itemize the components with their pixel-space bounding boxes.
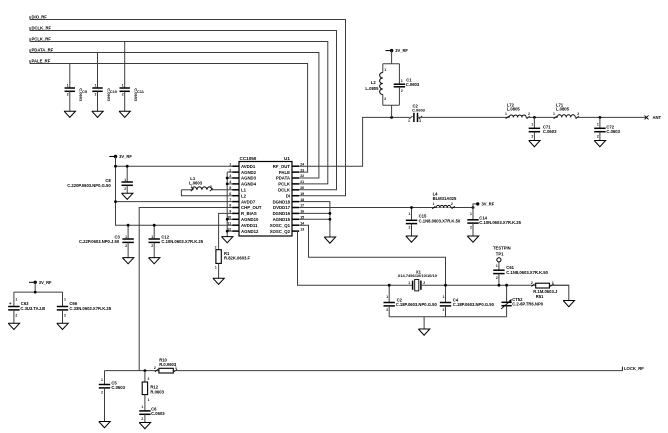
capacitor C4: [440, 302, 451, 304]
port ANT: [645, 115, 649, 119]
capacitor C71: [529, 127, 540, 129]
svg-text:23: 23: [300, 168, 304, 172]
ground under C8: [122, 193, 133, 199]
svg-text:AVDD7: AVDD7: [241, 199, 256, 204]
wire lock line to port: [173, 370, 622, 372]
svg-text:1: 1: [124, 178, 126, 182]
U1 pin 21 stub (PCLK): [292, 183, 299, 185]
svg-text:2: 2: [470, 225, 472, 229]
port label PDATA_RF: [29, 49, 31, 52]
svg-text:XOSC_Q1: XOSC_Q1: [270, 223, 291, 228]
svg-text:PDATA_RF: PDATA_RF: [32, 47, 54, 52]
net PALE_RF: bus wire from port to U1 pin 23: [30, 64, 308, 173]
capacitor C2 (crystal left): [384, 302, 395, 304]
capacitor C14: [467, 219, 478, 221]
svg-text:RF_OUT: RF_OUT: [273, 164, 291, 169]
svg-text:ANT: ANT: [653, 115, 662, 120]
svg-text:1: 1: [409, 212, 411, 216]
svg-text:2: 2: [419, 119, 421, 123]
resistor R1: [216, 250, 221, 264]
wire: [13, 310, 15, 323]
svg-text:R_BIAS: R_BIAS: [241, 211, 257, 216]
wire to capacitor C2 (crystal left): [388, 285, 390, 302]
svg-text:1: 1: [122, 84, 124, 88]
U1 pin 8 stub (CHP_OUT): [232, 207, 239, 209]
svg-text:CC1050: CC1050: [240, 156, 257, 161]
svg-text:AGND15: AGND15: [273, 217, 291, 222]
wire vertical power rail to AVDD11 (pin 11): [116, 166, 233, 225]
svg-text:1: 1: [433, 202, 435, 206]
U1 pin 2 stub (AGND2): [232, 171, 239, 173]
svg-text:DI: DI: [286, 193, 290, 198]
svg-text:DIO_RF: DIO_RF: [32, 14, 48, 19]
ground under C71: [529, 141, 540, 147]
capacitor C3: [122, 238, 133, 240]
wire to capacitor C12: [153, 225, 155, 239]
IC U1 CC1050 body: [239, 162, 292, 237]
node junction DVDD/3V_RF: [472, 206, 475, 209]
svg-text:C.3U3.TAJ.B: C.3U3.TAJ.B: [20, 306, 45, 311]
wire: [472, 223, 474, 236]
svg-text:2: 2: [531, 134, 533, 138]
svg-text:1: 1: [443, 295, 445, 299]
U1 pin 4 stub (AGND4): [232, 183, 239, 185]
wire to capacitor C63: [13, 292, 15, 306]
U1 pin 5 stub (L1): [232, 189, 239, 191]
U1 pin 19 stub (DI): [292, 195, 299, 197]
wire: [69, 91, 71, 111]
svg-text:1: 1: [597, 122, 599, 126]
capacitor C15: [406, 219, 417, 221]
svg-text:1: 1: [531, 122, 533, 126]
inductor L71: [554, 116, 557, 119]
capacitor C1 (tank): [398, 64, 400, 84]
resistor R10 (0 ohm) in lock line: [155, 369, 158, 372]
svg-text:L.0805: L.0805: [507, 106, 521, 111]
svg-text:2: 2: [148, 377, 150, 381]
wire: [144, 414, 146, 422]
wire: [506, 306, 508, 317]
svg-text:C.2-6P.TR6.NP0: C.2-6P.TR6.NP0: [512, 301, 544, 306]
svg-text:1: 1: [101, 378, 103, 382]
U1 pin 6 stub (L2): [232, 195, 239, 197]
node junction at AVDD1: [114, 165, 117, 168]
svg-text:2: 2: [151, 244, 153, 248]
wire CHP_OUT (pin 8) down to lock filter: [139, 208, 232, 371]
svg-text:22: 22: [300, 174, 304, 178]
svg-text:DVDD17: DVDD17: [273, 205, 291, 210]
svg-text:2: 2: [423, 281, 425, 285]
svg-text:1: 1: [408, 119, 410, 123]
svg-text:1: 1: [148, 398, 150, 402]
power symbol 3V_RF (DVDD): [473, 204, 476, 208]
wire to antenna: [575, 116, 646, 118]
svg-text:2: 2: [141, 417, 143, 421]
svg-text:DCLK: DCLK: [278, 188, 291, 193]
wire AGND stub pin 3: [227, 177, 232, 179]
svg-text:2: 2: [597, 134, 599, 138]
svg-text:AGND12: AGND12: [241, 229, 259, 234]
capacitor C10: [92, 87, 102, 89]
wire to capacitor C5: [104, 371, 106, 385]
U1 pin 17 stub (DVDD17): [292, 207, 299, 209]
svg-text:CHP_OUT: CHP_OUT: [241, 205, 262, 210]
svg-text:2: 2: [451, 202, 453, 206]
U1 pin 3 stub (AGND3): [232, 177, 239, 179]
capacitor C8: [122, 181, 133, 183]
wire DGND16 (pin 16): [299, 212, 330, 214]
svg-text:3V_RF: 3V_RF: [395, 48, 408, 53]
ground AGND bus: [222, 237, 233, 243]
wire: [126, 185, 128, 193]
power symbol 3V_RF (tank): [385, 50, 390, 52]
capacitor C66: [57, 306, 68, 308]
wire: [97, 91, 99, 111]
wire TP1 to C61: [498, 262, 500, 270]
ground under C15: [406, 236, 417, 242]
svg-text:19: 19: [300, 192, 304, 196]
wire: [526, 116, 557, 118]
svg-text:1: 1: [384, 68, 386, 72]
wire AGND stub pin 4: [227, 183, 232, 185]
net PDATA_RF: bus wire from port to U1 pin 22: [30, 53, 319, 179]
capacitor C2 series (RF coupling): [409, 116, 412, 119]
U1 pin 7 stub (AVDD7): [232, 201, 239, 203]
crystal X1: [412, 281, 414, 290]
wire DVDD17 (pin 17) supply line: [299, 207, 473, 209]
wire AGND stub pin 12: [227, 230, 232, 232]
U1 pin 16 stub (DGND16): [292, 212, 299, 214]
wire: [445, 306, 447, 317]
svg-text:1: 1: [64, 298, 66, 302]
svg-text:AGND4: AGND4: [241, 182, 257, 187]
ground under C3: [122, 258, 133, 264]
svg-text:3V_RF: 3V_RF: [482, 202, 495, 207]
wire to capacitor C14: [472, 208, 474, 220]
net PCLK_RF: bus wire from port to U1 pin 21: [30, 42, 328, 184]
wire: [127, 242, 129, 257]
svg-text:BLM31A025: BLM31A025: [433, 196, 457, 201]
wire XOSC_Q1 (pin 14) to crystal right node: [299, 225, 445, 285]
svg-text:1: 1: [95, 84, 97, 88]
wire to capacitor C15: [411, 208, 413, 221]
svg-text:2: 2: [409, 226, 411, 230]
svg-text:2: 2: [384, 97, 386, 101]
capacitor C63 (tantalum): [8, 306, 19, 308]
wire crystal node to C61/trimmer/R51: [446, 284, 569, 286]
capacitor C72: [594, 127, 605, 129]
svg-text:21: 21: [300, 180, 304, 184]
svg-text:3V_RF: 3V_RF: [39, 280, 52, 285]
svg-text:1: 1: [67, 84, 69, 88]
port label PCLK_RF: [29, 38, 31, 41]
node junctions on DGND bus: [329, 212, 332, 215]
svg-text:L1: L1: [241, 188, 247, 193]
svg-text:2: 2: [528, 112, 530, 116]
svg-text:AGND10: AGND10: [241, 217, 259, 222]
wire R51 to ground: [549, 285, 568, 300]
capacitor C6: [139, 410, 150, 412]
svg-text:L.0805: L.0805: [556, 106, 570, 111]
svg-text:TP1: TP1: [496, 251, 504, 256]
node junction C71: [533, 116, 536, 119]
wire: [498, 274, 500, 286]
svg-text:+: +: [9, 301, 12, 306]
svg-text:X14.7456/10/10/10/10: X14.7456/10/10/10/10: [398, 273, 438, 278]
svg-text:C.10N.0603.X7R.K.25: C.10N.0603.X7R.K.25: [479, 220, 521, 225]
svg-text:1: 1: [141, 405, 143, 409]
svg-text:2: 2: [210, 185, 212, 189]
ground under C63: [8, 323, 19, 329]
U1 pin 23 stub (PALE): [292, 171, 299, 173]
svg-text:C.18P.0603.NP0.G.50: C.18P.0603.NP0.G.50: [453, 302, 495, 307]
svg-text:1: 1: [386, 295, 388, 299]
ground under C72: [594, 141, 605, 147]
svg-text:1: 1: [215, 265, 217, 269]
svg-text:L.0805: L.0805: [365, 86, 379, 91]
U1 pin 24 stub (RF_OUT): [292, 165, 299, 167]
ground right of U1: [324, 237, 335, 243]
svg-text:R.0.0603: R.0.0603: [159, 362, 177, 367]
svg-text:1: 1: [15, 298, 17, 302]
U1 pin 12 stub (AGND12): [232, 230, 239, 232]
capacitor C9: [65, 87, 75, 89]
wire: [124, 91, 126, 111]
svg-text:L.0603: L.0603: [189, 180, 203, 185]
svg-text:C10: C10: [110, 89, 118, 94]
wire crystal bottom rail: [389, 316, 506, 318]
port label PALE_RF: [29, 60, 31, 63]
svg-text:DCLK_RF: DCLK_RF: [32, 25, 52, 30]
wire: [218, 263, 220, 278]
svg-text:2: 2: [67, 93, 69, 97]
wire from bus down to capacitor C10: [97, 53, 99, 88]
ground under C66: [57, 323, 68, 329]
svg-text:2: 2: [101, 390, 103, 394]
ground right of R51: [563, 301, 574, 307]
svg-text:2: 2: [154, 366, 156, 370]
svg-text:R51: R51: [536, 294, 544, 299]
U1 pin 15 stub (AGND15): [292, 218, 299, 220]
node junction C72: [599, 116, 602, 119]
svg-text:1: 1: [191, 185, 193, 189]
svg-text:1: 1: [470, 212, 472, 216]
wire to capacitor C4 (crystal right): [445, 285, 447, 302]
wire tank tap: [391, 105, 393, 117]
svg-text:C11: C11: [137, 89, 145, 94]
svg-text:C.0603: C.0603: [151, 411, 165, 416]
svg-text:2: 2: [64, 314, 66, 318]
ground under C12: [149, 258, 160, 264]
inductor L4 (ferrite bead): [436, 205, 451, 208]
wire to ground: [423, 317, 425, 329]
resistor R12: [142, 382, 147, 395]
capacitor C11: [120, 87, 130, 89]
wire power island rail: [34, 282, 36, 292]
svg-text:PCLK_RF: PCLK_RF: [32, 36, 52, 41]
svg-text:PCLK: PCLK: [278, 182, 291, 187]
svg-text:DGND18: DGND18: [273, 199, 291, 204]
svg-text:1: 1: [496, 264, 498, 268]
wire to resistor R12: [144, 371, 146, 382]
wire to trimmer CT52: [506, 285, 508, 302]
wire: [599, 132, 601, 141]
svg-text:2: 2: [125, 244, 127, 248]
capacitor C5: [99, 384, 110, 386]
svg-text:C.0603: C.0603: [406, 82, 420, 87]
port label DCLK_RF: [29, 27, 31, 30]
wire to capacitor C71: [533, 117, 535, 128]
wire AGND stub pin 10: [227, 218, 232, 220]
capacitor C61: [493, 269, 504, 271]
svg-text:2: 2: [122, 93, 124, 97]
svg-text:AGND2: AGND2: [241, 170, 257, 175]
wire power to tank: [391, 51, 393, 64]
inductor L1 between pins 5 and 6: [212, 189, 232, 191]
svg-text:C.1N8.0603.X7R.K.50: C.1N8.0603.X7R.K.50: [419, 219, 461, 224]
wire AGND15 (pin 15): [299, 218, 330, 220]
wire to capacitor C66: [62, 292, 64, 306]
svg-text:U1: U1: [284, 156, 290, 161]
U1 pin 10 stub (AGND10): [232, 218, 239, 220]
wire to capacitor C3: [127, 225, 129, 239]
wire R_BIAS pin 9 to R1: [219, 213, 233, 249]
svg-text:R.82K.0603.F: R.82K.0603.F: [224, 256, 251, 261]
svg-text:2: 2: [386, 308, 388, 312]
ground under R1: [213, 278, 224, 284]
ground under C10: [92, 111, 103, 117]
svg-text:C.220P.0603.NP0.G.50: C.220P.0603.NP0.G.50: [67, 183, 111, 188]
svg-text:2: 2: [215, 245, 217, 249]
ground under crystal network: [418, 329, 429, 335]
wire AVDD7 (pin 7): [116, 201, 233, 203]
svg-text:2: 2: [496, 276, 498, 280]
svg-text:XOSC_Q2: XOSC_Q2: [270, 229, 291, 234]
svg-text:LOCK_RF: LOCK_RF: [624, 366, 644, 371]
port label LOCK_RF: [621, 367, 623, 371]
svg-text:C.0603: C.0603: [412, 107, 426, 112]
svg-text:2: 2: [95, 93, 97, 97]
svg-text:13: 13: [300, 227, 304, 231]
resistor R51: [531, 284, 534, 287]
svg-text:AVDD11: AVDD11: [241, 223, 258, 228]
svg-text:3V_RF: 3V_RF: [119, 154, 132, 159]
svg-text:C.22P.0603.NP0.J.50: C.22P.0603.NP0.J.50: [79, 239, 120, 244]
port label DIO_RF: [29, 16, 31, 19]
U1 pin 22 stub (PDATA): [292, 177, 299, 179]
ground under C6: [139, 423, 150, 429]
ground under C5: [99, 422, 110, 428]
LC tank: inductor L2 parallel capacitor C1: [383, 63, 400, 65]
wire DGND18 (pin 18) to ground bus: [299, 202, 330, 237]
capacitor C12: [149, 238, 160, 240]
svg-text:PDATA: PDATA: [276, 176, 290, 181]
wire: [104, 388, 106, 422]
wire: [62, 310, 64, 323]
wire to capacitor C72: [599, 117, 601, 128]
node junction R12: [144, 369, 147, 372]
svg-text:1: 1: [553, 112, 555, 116]
wire: [153, 242, 155, 257]
svg-text:C.1N8.0603.X7R.K.50: C.1N8.0603.X7R.K.50: [506, 270, 548, 275]
svg-text:C.0603: C.0603: [111, 385, 125, 390]
svg-text:C.18P.0603.NP0.G.50: C.18P.0603.NP0.G.50: [396, 302, 438, 307]
net DCLK_RF: bus wire from port to U1 pin 20: [30, 31, 337, 190]
svg-text:20: 20: [300, 186, 304, 190]
svg-text:2: 2: [531, 281, 533, 285]
inductor L72: [506, 116, 509, 119]
wire lock rail: [105, 370, 159, 372]
U1 pin 13 stub (XOSC_Q2): [292, 230, 299, 232]
svg-text:TESTPIN: TESTPIN: [493, 245, 511, 250]
U1 pin 20 stub (DCLK): [292, 189, 299, 191]
U1 pin 14 stub (XOSC_Q1): [292, 224, 299, 226]
U1 pin 9 stub (R_BIAS): [232, 212, 239, 214]
trimmer capacitor CT52: [502, 301, 512, 303]
net DIO_RF: bus wire from port to U1 pin 19: [30, 20, 346, 196]
ground under C14: [467, 236, 478, 242]
svg-text:C.0603: C.0603: [606, 129, 620, 134]
svg-text:R.0603: R.0603: [150, 389, 164, 394]
wire from bus down to capacitor C11: [124, 42, 126, 88]
wire RF_OUT (pin 24) up to matching network: [299, 117, 410, 166]
svg-text:2: 2: [401, 89, 403, 93]
wire: [388, 306, 390, 317]
svg-text:AVDD1: AVDD1: [241, 164, 256, 169]
U1 pin 11 stub (AVDD11): [232, 224, 239, 226]
wire AGND bus pins 2,3,4,10,12: [227, 171, 232, 173]
wire: [533, 132, 535, 141]
svg-text:1: 1: [408, 281, 410, 285]
svg-text:DGND16: DGND16: [273, 211, 291, 216]
svg-text:2: 2: [443, 308, 445, 312]
wire L1 return to pin 6: [181, 190, 232, 196]
svg-text:L2: L2: [241, 193, 247, 198]
svg-text:2: 2: [15, 314, 17, 318]
wire from bus down to capacitor C9: [69, 64, 71, 88]
wire RF line to antenna filter: [418, 116, 510, 118]
svg-text:PALE: PALE: [279, 170, 290, 175]
wire 3V_RF down to AVDD1 (pin 1): [116, 157, 233, 167]
svg-text:1: 1: [401, 79, 403, 83]
svg-text:L2: L2: [371, 80, 377, 85]
svg-text:2: 2: [577, 112, 579, 116]
svg-text:C9: C9: [82, 89, 88, 94]
power symbol 3V_RF (left of U1): [109, 156, 114, 158]
wire to capacitor C8: [126, 166, 128, 182]
ground under C9: [64, 111, 75, 117]
svg-text:1: 1: [505, 112, 507, 116]
svg-text:C.33N.0603.X7R.K.25: C.33N.0603.X7R.K.25: [69, 306, 111, 311]
wire R12 to C6: [144, 395, 146, 411]
U1 pin 18 stub (DGND18): [292, 201, 299, 203]
svg-text:C.0603: C.0603: [543, 129, 557, 134]
svg-text:1: 1: [125, 235, 127, 239]
svg-text:AGND3: AGND3: [241, 176, 257, 181]
node junction at AVDD7: [114, 200, 117, 203]
node junction tank tap: [390, 116, 393, 119]
svg-text:PALE_RF: PALE_RF: [32, 58, 51, 63]
svg-text:1: 1: [151, 235, 153, 239]
svg-text:1: 1: [552, 281, 554, 285]
svg-text:C.10N.0603.X7R.K.25: C.10N.0603.X7R.K.25: [161, 239, 203, 244]
wire: [411, 224, 413, 236]
power symbol 3V_RF (bottom left): [29, 281, 34, 283]
wire XOSC_Q2 (pin 13) to crystal left node: [298, 231, 413, 285]
svg-text:2: 2: [124, 187, 126, 191]
ground under C11: [119, 111, 130, 117]
U1 pin 1 stub (AVDD1): [232, 165, 239, 167]
